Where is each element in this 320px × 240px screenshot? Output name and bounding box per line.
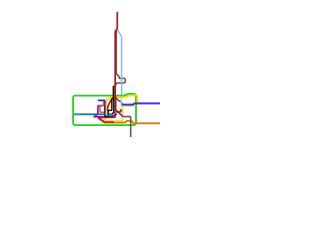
- yellow line main: [106, 95, 137, 116]
- indigo line: [122, 103, 160, 105]
- light blue line: [117, 30, 121, 95]
- violet northeast diagonal: [117, 111, 123, 117]
- transit map: [0, 0, 160, 160]
- green loop line: [73, 94, 136, 125]
- black trunk: [112, 86, 114, 114]
- dark red trunk: [115, 12, 121, 112]
- black bundle segment: [105, 115, 110, 117]
- violet line: [94, 106, 113, 117]
- orange main line: [98, 118, 160, 123]
- red west bar + southeast bar: [98, 113, 115, 123]
- pale blue short segment: [74, 113, 81, 115]
- gray south line: [123, 117, 131, 137]
- yellow east branch segment: [122, 102, 134, 105]
- orange knot S piece: [100, 101, 104, 112]
- teal line: [74, 113, 113, 115]
- red knot branch diagonal: [108, 97, 114, 111]
- black knot branch: [108, 99, 112, 115]
- royal blue line: [98, 100, 117, 116]
- light blue faint lower stub: [120, 97, 122, 107]
- gray parallel + flag + diagonal: [115, 31, 126, 103]
- yellow line south tail: [105, 103, 123, 121]
